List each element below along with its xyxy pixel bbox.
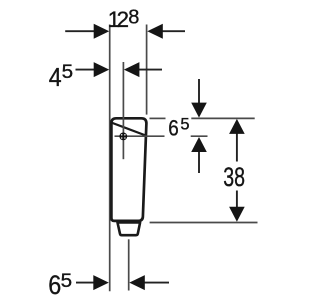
extension line cistern bottom level [150,222,258,224]
extension line screw axis [122,62,124,159]
extension line right of top dim 12.8 [146,25,148,115]
svg-text:38: 38 [223,162,245,192]
extension line outlet axis [128,239,130,290]
dim 4.5 left arrow [76,69,96,71]
dim 38 upper arrow [236,133,238,162]
svg-text:5: 5 [61,271,73,292]
cistern body [111,118,146,221]
svg-text:5: 5 [180,115,189,133]
cistern lid seam (diagonal) [112,123,146,136]
dim 12.8 left arrow [65,30,95,32]
svg-text:4: 4 [49,62,62,92]
dim 6.5 vertical upper arrow [198,79,200,104]
extension line cistern top level [150,117,166,119]
dim 12.8 right arrow [162,30,185,32]
svg-text:2: 2 [117,7,129,32]
extension line screw level (left segment) [115,135,165,137]
svg-text:6: 6 [168,115,179,140]
dim 4.5 right arrow [138,69,162,71]
dim 38 lower arrow [236,191,238,209]
dim 6.5 bottom left arrow [76,282,95,284]
svg-text:8: 8 [128,6,139,28]
dim 6.5 bottom right arrow [144,282,170,284]
svg-text:6: 6 [48,270,61,300]
svg-text:5: 5 [62,62,74,83]
dim 6.5 vertical lower arrow [198,150,200,173]
extension line screw level [191,135,208,137]
extension line left (rear edge datum) [109,25,111,292]
flush bend outlet [118,223,141,236]
supply screw [119,133,127,141]
